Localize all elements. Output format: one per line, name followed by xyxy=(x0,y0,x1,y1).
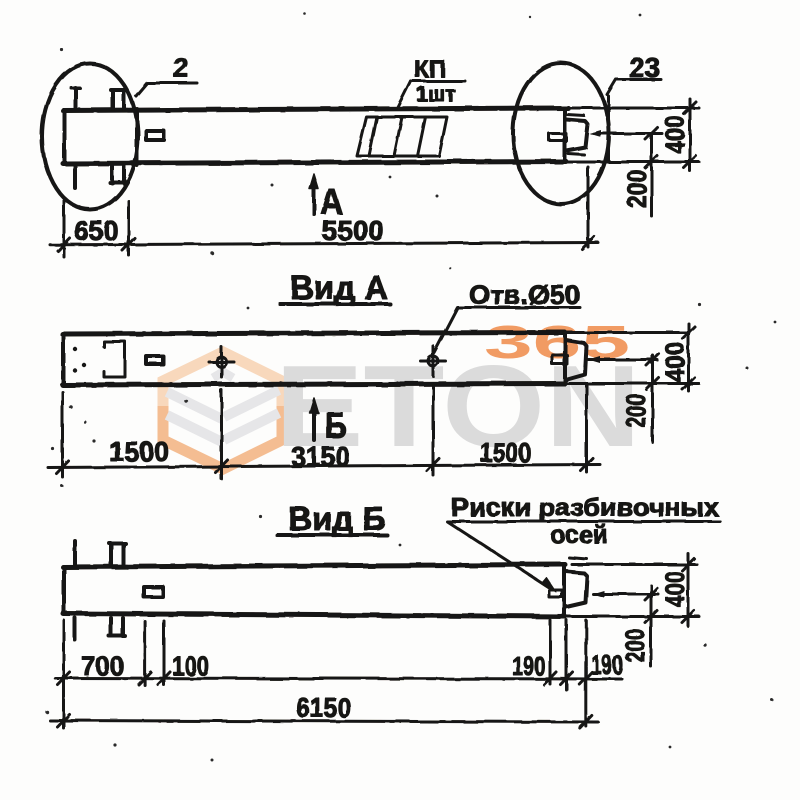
svg-text:100: 100 xyxy=(172,651,209,681)
bottom loops view B xyxy=(75,618,125,640)
view arrow A xyxy=(312,184,316,214)
svg-text:Б: Б xyxy=(325,405,347,446)
svg-text:Вид Б: Вид Б xyxy=(288,500,386,537)
dimension extensions view A xyxy=(63,385,587,479)
svg-text:650: 650 xyxy=(74,215,118,246)
embedded plate mark view B xyxy=(144,587,163,597)
riska dashes at dowel top view xyxy=(567,115,584,155)
beam body top view xyxy=(63,108,568,166)
dimension line 6150 xyxy=(50,721,598,723)
svg-text:190: 190 xyxy=(512,651,545,681)
label KP 1sht xyxy=(398,81,466,107)
svg-text:Отв.Ø50: Отв.Ø50 xyxy=(469,280,580,310)
svg-text:1500: 1500 xyxy=(480,437,531,468)
svg-text:700: 700 xyxy=(81,651,124,681)
svg-text:200: 200 xyxy=(620,629,650,662)
end dowel view A xyxy=(552,340,587,380)
hole marker 1 xyxy=(209,347,234,377)
dimension 200 right (view B) xyxy=(593,586,658,667)
end dowel view B xyxy=(566,572,587,608)
dimension 200 right (top view) xyxy=(594,134,662,217)
beam body view A xyxy=(63,333,566,386)
svg-text:200: 200 xyxy=(622,170,652,208)
svg-text:190: 190 xyxy=(591,650,623,680)
svg-text:200: 200 xyxy=(621,394,651,428)
svg-text:400: 400 xyxy=(660,116,690,153)
label Otv d50 xyxy=(434,308,580,353)
dimension extensions view B xyxy=(64,620,586,728)
ticks xyxy=(58,237,594,252)
beam body view B xyxy=(63,565,565,617)
lifting pad KP parallelogram xyxy=(357,117,447,156)
svg-text:осей: осей xyxy=(550,521,608,549)
svg-text:1500: 1500 xyxy=(109,436,169,467)
svg-text:6150: 6150 xyxy=(296,692,351,723)
svg-text:1шт: 1шт xyxy=(416,83,455,106)
svg-text:400: 400 xyxy=(660,342,690,382)
dimension line 650+5500 xyxy=(50,243,598,245)
embedded plate mark view A xyxy=(146,356,163,364)
svg-text:23: 23 xyxy=(629,52,660,83)
view arrow B xyxy=(312,410,316,440)
dimension line 700/100/190/190 xyxy=(55,678,622,679)
svg-text:Риски разбивочных: Риски разбивочных xyxy=(451,494,719,522)
dimension 400 right (top view) xyxy=(566,99,699,171)
riska mark above xyxy=(569,558,587,560)
svg-text:3150: 3150 xyxy=(291,441,350,472)
left end loops (bottom) xyxy=(75,164,126,188)
hole marker 2 xyxy=(421,346,446,376)
callout ellipse 2 (left end) xyxy=(42,64,138,210)
ticks view A xyxy=(57,458,593,474)
watermark logo hexagon xyxy=(163,352,282,469)
top loops view B xyxy=(75,541,125,565)
dimension 650 / 5500 extension lines xyxy=(64,167,588,257)
svg-text:5500: 5500 xyxy=(322,215,384,246)
left end loops (top) xyxy=(71,88,126,109)
svg-text:Вид А: Вид А xyxy=(290,269,388,306)
hidden plate bracket left end xyxy=(104,342,125,378)
embedded plate mark top view xyxy=(146,131,164,140)
svg-text:КП: КП xyxy=(414,56,446,83)
dimension 200 right (view A) xyxy=(588,355,657,442)
svg-text:2: 2 xyxy=(173,52,189,83)
dimension 400 right (view A) xyxy=(565,324,699,392)
dimension line view A xyxy=(48,465,600,468)
ticks dim line 1 xyxy=(58,672,592,685)
label 2 leader xyxy=(136,83,197,96)
label 23 leader xyxy=(607,80,661,95)
svg-text:400: 400 xyxy=(660,571,690,607)
callout ellipse 23 (right end) xyxy=(513,63,609,204)
dimension 400 right (view B) xyxy=(566,554,699,627)
riska mark on dowel xyxy=(549,590,562,597)
vertical mark at right end xyxy=(607,96,610,162)
end dowel (top view) xyxy=(549,120,588,151)
